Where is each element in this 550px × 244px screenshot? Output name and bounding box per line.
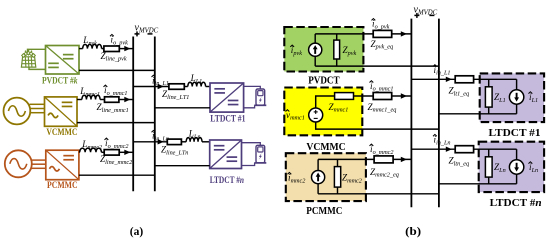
label i_pvk (290, 45, 302, 57)
voltage source v_mmc1 (309, 108, 323, 122)
label L_Ln (188, 129, 201, 141)
inductor L_mmc2 (79, 148, 102, 152)
label L_L1 (190, 73, 203, 85)
svg-text:LTDCT #n: LTDCT #n (210, 175, 244, 185)
wire: negative MVDC bus (a) (154, 37, 156, 192)
label Z_lt1_eq (449, 86, 470, 98)
wire: 3-phase lines PCMMC (31, 160, 46, 168)
label Z_pvk (343, 45, 357, 57)
label VCMMC (46, 127, 77, 137)
wire: Z_mmc1_eq to positive bus, current i_o_mmc1 (392, 93, 412, 98)
label Z_line_LT1 (162, 89, 189, 101)
wire: inductor to LTDCT #n (202, 141, 210, 143)
wire: LTDCT #1 return to negative bus (155, 107, 210, 109)
converter PVDCT #k (DC/DC box) (46, 46, 80, 75)
AC source (VCMMC grid) (4, 98, 31, 125)
label i_in_Ln (152, 131, 170, 143)
wire: positive bus to Z_lt1_eq, current i_in_L1 (411, 77, 455, 82)
impedance Z_Ln (485, 149, 492, 184)
svg-text:PVDCT #k: PVDCT #k (42, 76, 78, 86)
charging-station load of LTDCT #1 (244, 86, 267, 107)
label i_in_L1 (b) (433, 65, 451, 77)
wire: inductor to Z_line_mmc1 (100, 99, 104, 101)
LTDCT #1 equivalent box (purple dashed) (480, 73, 544, 122)
wire: inductor to LTDCT #1 (206, 86, 210, 88)
label L_pvk (82, 35, 97, 47)
label Z_line_LTn (161, 145, 188, 157)
PVDCT equivalent box (green dashed) (284, 27, 363, 72)
wire: PCMMC eq top rail (318, 159, 374, 170)
inductor L_mmc1 (82, 95, 100, 99)
wire: PCMMC return to negative bus (79, 174, 155, 176)
wire: Z_line_pvk to bus, current i_o_pvk (119, 46, 133, 51)
current source i_mmc2 (312, 171, 325, 184)
wire: VCMMC return to negative bus (77, 122, 155, 124)
svg-text:(a): (a) (130, 224, 143, 238)
svg-text:VCMMC: VCMMC (306, 142, 345, 153)
label L_mmc2 (81, 139, 102, 151)
AC source (PCMMC grid) (5, 150, 32, 177)
label i_o_mmc1 (b) (370, 81, 394, 93)
label LTDCT #1 (210, 113, 246, 123)
impedance Z_L1 (485, 79, 492, 114)
wire: LTDCT #n return to negative bus (155, 165, 210, 167)
label Z_pvk_eq (371, 39, 394, 51)
PV array icon (21, 50, 35, 67)
impedance Z_pvk_eq (373, 30, 392, 37)
node v_MVDC label (a) (135, 23, 159, 37)
impedance Z_mmc2 (334, 159, 340, 193)
wire: inductor to Z_line_mmc2 (101, 151, 104, 153)
wire: PCMMC eq bottom rail to negative bus (318, 184, 439, 194)
svg-text:LTDCT #1: LTDCT #1 (210, 113, 246, 123)
wire: Z_mmc2_eq to positive bus, current i_o_mmc2 (393, 157, 411, 162)
wire: Z_line_mmc2 to bus, current i_o_mmc2 (119, 150, 133, 155)
wire: PVDCT output to inductor (79, 48, 83, 50)
wire: 3-phase lines VCMMC (30, 104, 45, 112)
label i_Ln (529, 162, 539, 174)
impedance Z_line_mmc1 (105, 97, 119, 103)
wire: LTDCT #n eq top rail (474, 148, 517, 150)
svg-text:PVDCT: PVDCT (308, 76, 339, 87)
label Z_mmc2 (342, 173, 362, 185)
wire: positive bus to Z_ltn_eq, current i_in_Ln (411, 147, 455, 152)
impedance Z_ltn_eq (455, 146, 473, 153)
svg-text:PCMMC: PCMMC (47, 180, 78, 190)
label i_L1 (529, 92, 539, 104)
wire: LTDCT #n eq bottom rail to negative bus (439, 183, 517, 185)
inductor L_Ln (186, 138, 202, 142)
impedance Z_line_pvk (104, 46, 119, 52)
wire: Z_pvk_eq to positive bus, current i_o_pvk (392, 31, 412, 36)
impedance Z_lt1_eq (455, 76, 473, 83)
label i_o_mmc2 (105, 138, 129, 150)
converter PCMMC (AC/DC box) (46, 150, 79, 180)
current source i_pvk (309, 43, 322, 56)
inductor L_pvk (83, 44, 102, 48)
wire: negative MVDC bus (b) (438, 19, 440, 208)
converter LTDCT #n (DC/DC box) (210, 140, 242, 169)
svg-text:PCMMC: PCMMC (306, 206, 342, 217)
wire: VCMMC eq bottom rail to negative bus (316, 122, 439, 129)
label PVDCT (308, 76, 339, 87)
wire: positive MVDC bus (b) (410, 19, 412, 208)
impedance Z_mmc1_eq (373, 93, 392, 100)
wire: LTDCT #1 eq bottom rail to negative bus (439, 113, 517, 115)
label Z_mmc1_eq (368, 102, 397, 114)
label Z_line_pvk (101, 51, 127, 63)
impedance Z_mmc1 (335, 93, 354, 100)
label i_in_Ln (b) (433, 135, 451, 147)
impedance Z_line_mmc2 (104, 150, 119, 156)
current source i_L1 (load) (509, 79, 523, 114)
svg-text:LTDCT #1: LTDCT #1 (489, 128, 541, 139)
wire: bus to Z_line_LT1, current i_in_L1 (133, 84, 169, 89)
label i_o_pvk (b) (372, 19, 390, 31)
label (b) (405, 224, 421, 238)
inductor L_L1 (188, 82, 206, 86)
PCMMC equivalent box (tan dashed) (286, 153, 366, 201)
wire: PVDCT eq top rail (315, 34, 373, 43)
label i_o_mmc2 (b) (370, 144, 394, 156)
node v_MVDC label (b) (414, 5, 438, 18)
wire: LTDCT #1 eq top rail (474, 78, 517, 80)
wire: VCMMC output to inductor (77, 99, 82, 101)
converter VCMMC (AC/DC box) (45, 97, 78, 126)
impedance Z_pvk (334, 34, 340, 66)
label VCMMC (b) (306, 142, 345, 153)
wire: PVDCT return to negative bus (79, 69, 155, 71)
wire: bus to Z_line_LTn, current i_in_Ln (133, 139, 167, 144)
wire: inductor to Z_line_pvk (102, 48, 104, 50)
label i_o_mmc1 (104, 85, 128, 97)
svg-text:(b): (b) (405, 224, 421, 238)
label PCMMC (b) (306, 206, 342, 217)
label PVDCT #k (42, 76, 78, 86)
label Z_line_mmc2 (100, 154, 132, 166)
label Z_mmc2_eq (370, 167, 399, 179)
label Z_line_mmc1 (97, 102, 129, 114)
label L_mmc1 (79, 86, 100, 98)
label PCMMC (47, 180, 78, 190)
wire: Z to inductor L_Ln (181, 141, 186, 143)
current source i_Ln (load) (509, 149, 523, 184)
label LTDCT #1 (b) (489, 128, 541, 139)
svg-text:LTDCT #n: LTDCT #n (490, 198, 542, 209)
label v_mmc1 (286, 110, 305, 122)
charging-station load of LTDCT #n (242, 143, 267, 166)
impedance Z_line_LTn (167, 139, 181, 145)
wire: PV array to PVDCT top (green) (28, 49, 46, 52)
converter LTDCT #1 (DC/DC box) (210, 83, 244, 112)
VCMMC equivalent box (yellow dashed) (284, 88, 362, 136)
wire: PVDCT eq bottom rail to negative bus (315, 43, 439, 66)
svg-text:VCMMC: VCMMC (46, 127, 77, 137)
label LTDCT #n (210, 175, 244, 185)
wire: source top to Z_mmc1 (316, 96, 335, 108)
label i_mmc2 (288, 173, 306, 185)
wire: Z_line_mmc1 to bus, current i_o_mmc1 (119, 97, 133, 102)
label Z_L1 (494, 92, 506, 104)
label i_o_pvk (110, 35, 128, 47)
label Z_ltn_eq (449, 156, 470, 168)
wire: Z to inductor L_L1 (184, 86, 188, 88)
label LTDCT #n (b) (490, 198, 542, 209)
label Z_Ln (494, 162, 506, 174)
wire: positive MVDC bus (a) (132, 37, 134, 192)
label Z_mmc1 (329, 102, 349, 114)
label i_in_L1 (152, 75, 170, 87)
wire: PV array to PVDCT bottom (green) (29, 67, 46, 69)
wire: Z_mmc1 to Z_mmc1_eq (354, 95, 374, 97)
impedance Z_mmc2_eq (374, 156, 393, 163)
label (a) (130, 224, 143, 238)
LTDCT #n equivalent box (purple dashed) (479, 142, 544, 192)
impedance Z_line_LT1 (169, 84, 184, 90)
